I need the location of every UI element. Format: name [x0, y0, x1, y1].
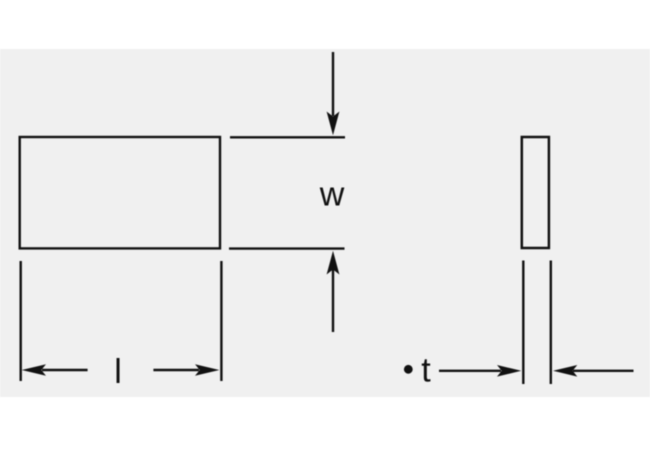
svg-text:w: w — [319, 176, 345, 214]
svg-text:t: t — [421, 352, 431, 390]
svg-text:l: l — [114, 353, 122, 391]
